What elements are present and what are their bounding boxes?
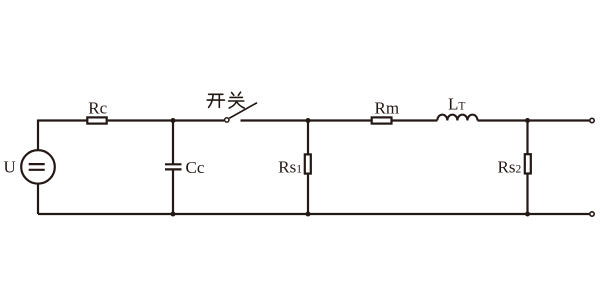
- svg-text:LT: LT: [448, 94, 465, 113]
- svg-text:Cc: Cc: [186, 158, 205, 177]
- svg-text:U: U: [4, 157, 16, 176]
- svg-text:Rm: Rm: [375, 99, 400, 118]
- svg-text:Rs1: Rs1: [278, 157, 302, 176]
- svg-text:Rc: Rc: [88, 99, 107, 118]
- svg-text:Rs2: Rs2: [498, 157, 522, 176]
